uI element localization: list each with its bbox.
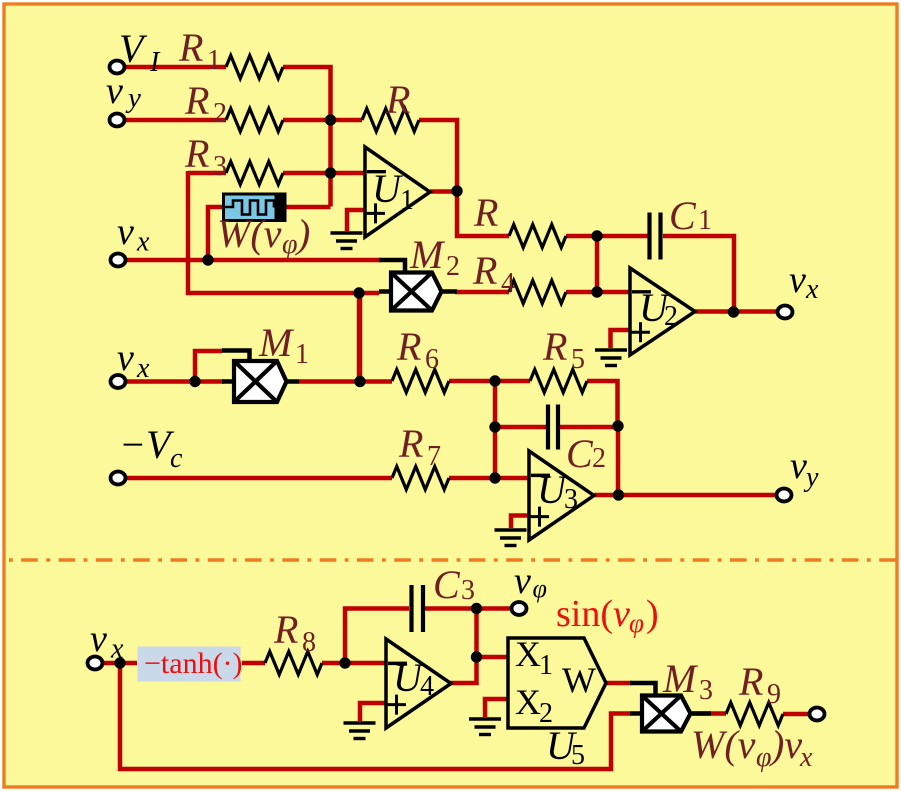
svg-text:M: M	[662, 656, 699, 701]
svg-text:4: 4	[420, 671, 434, 702]
resistor R1	[226, 56, 283, 79]
junction U4 output to X1	[471, 651, 482, 662]
wire integrator input bus	[493, 381, 498, 478]
op-amp U1	[365, 147, 430, 237]
resistor R7	[392, 467, 449, 490]
svg-text:R: R	[184, 78, 209, 123]
wire R8 right lead	[322, 661, 345, 666]
svg-text:3: 3	[699, 675, 713, 706]
lead M3 lower input	[630, 711, 642, 716]
wire U1 output	[430, 189, 457, 194]
svg-text:R: R	[398, 421, 423, 466]
svg-text:3: 3	[564, 484, 578, 515]
wire R5 right lead down	[587, 381, 618, 426]
svg-text:C: C	[566, 431, 594, 476]
label U3	[537, 467, 578, 515]
multiplier M3	[642, 696, 691, 732]
op-amp U4	[386, 639, 451, 728]
wire feedback R to U1 output	[419, 120, 457, 191]
svg-text:x: x	[136, 227, 150, 258]
wire v_x to M1	[125, 379, 224, 384]
svg-text:7: 7	[427, 441, 441, 472]
wire M2 lower node down to M1 output node	[357, 293, 362, 381]
label -Vc	[119, 422, 183, 474]
svg-text:M: M	[409, 232, 446, 277]
svg-text:v: v	[514, 560, 531, 602]
terminal v_y output	[777, 489, 792, 502]
svg-text:1: 1	[295, 339, 309, 370]
wire U4 noninverting to ground	[360, 703, 386, 721]
svg-text:R: R	[184, 131, 209, 176]
ground of U5 X2 input	[469, 719, 501, 735]
terminal v_phi	[512, 602, 527, 615]
svg-text:v: v	[789, 259, 806, 301]
memristor W(v_phi)	[224, 193, 286, 223]
svg-text:1: 1	[207, 45, 221, 76]
svg-text:R: R	[472, 248, 497, 293]
wire M1 second input loop	[195, 351, 222, 382]
label R feedback	[385, 77, 410, 122]
label v_phi	[514, 560, 547, 603]
label U5	[546, 723, 585, 771]
label R8	[273, 607, 316, 658]
lead M1 input	[222, 379, 234, 384]
svg-text:φ: φ	[756, 742, 772, 773]
wire U1 output down to R input of U2	[457, 191, 509, 236]
wire U1 noninverting to ground	[347, 210, 365, 231]
wire to M2 lower input	[359, 291, 379, 296]
junction R8 C3	[339, 657, 350, 668]
ground of U4	[344, 723, 376, 739]
svg-text:1: 1	[400, 185, 414, 216]
capacitor C3	[412, 585, 424, 632]
terminal v_x bottom	[88, 657, 103, 670]
wire v_x to tanh block	[103, 661, 137, 666]
ground of U2	[595, 350, 627, 366]
junction R7 U3 input	[489, 472, 500, 483]
wire to C2 left plate	[495, 425, 548, 430]
svg-text:v: v	[117, 211, 134, 253]
svg-text:3: 3	[213, 151, 227, 182]
svg-text:): )	[646, 593, 659, 635]
wire up to C3 left plate	[345, 609, 409, 664]
wire tanh block to R8	[242, 661, 265, 666]
wire to X1 input of U5	[477, 655, 509, 660]
svg-text:2: 2	[446, 251, 460, 282]
label V_I	[119, 26, 161, 78]
junction C2 left	[489, 421, 500, 432]
label M1	[258, 320, 309, 370]
svg-text:R: R	[396, 324, 421, 369]
svg-text:C: C	[433, 562, 461, 607]
wire C3 right to v_phi node	[425, 606, 511, 611]
wire R6 to R5 node	[449, 379, 530, 384]
terminal -Vc	[111, 472, 126, 485]
terminal v_x output	[778, 306, 793, 319]
wire U2 noninverting to ground	[611, 330, 631, 348]
wire node A to feedback R	[331, 118, 363, 123]
ground of U1	[331, 233, 363, 249]
node A junction R2	[325, 114, 336, 125]
svg-text:φ: φ	[629, 608, 644, 638]
label U4	[393, 655, 434, 702]
svg-text:C: C	[669, 193, 697, 238]
terminal v_x input 2	[111, 375, 126, 388]
wire v_y to R2	[125, 118, 226, 123]
svg-text:W(v: W(v	[217, 211, 282, 256]
svg-text:x: x	[110, 634, 124, 665]
wire R1 right lead and summing bus to node A	[283, 67, 331, 207]
wire R3 to node A	[283, 171, 331, 176]
wire node A to U1 inverting input	[331, 171, 366, 176]
wire V_I to R1	[125, 65, 226, 70]
label R1	[178, 25, 221, 76]
wire memristor left plate down to v_x line	[208, 207, 223, 260]
svg-text:sin(v: sin(v	[556, 593, 630, 635]
wire R4 to U2 inverting input	[566, 290, 630, 295]
label C2	[566, 431, 606, 476]
resistor R input of U2	[509, 225, 566, 248]
lead M1 output	[287, 379, 300, 384]
multiplier M2	[391, 273, 442, 311]
label M2	[409, 232, 460, 282]
terminal v_x input 1	[111, 254, 126, 267]
wire M1 output to R6	[299, 379, 392, 384]
svg-text:c: c	[170, 443, 183, 474]
wire R9 to output terminal	[783, 712, 809, 717]
junction M1 output	[354, 376, 365, 387]
wire M2 output to R4	[455, 290, 509, 295]
label U1	[372, 166, 414, 216]
label v_x 1	[117, 211, 150, 258]
ground of U3	[495, 530, 527, 546]
op-amp U3	[529, 451, 594, 540]
svg-text:R: R	[178, 25, 203, 70]
lead M3 upper input	[630, 683, 656, 694]
svg-text:)v: )v	[769, 722, 802, 767]
wire R3 node down to M2 lower input	[188, 171, 359, 293]
junction memristor on v_x line	[202, 254, 213, 265]
svg-text:9: 9	[767, 679, 781, 710]
svg-text:1: 1	[539, 650, 553, 681]
junction M2 lower input	[353, 287, 364, 298]
op-amp U2	[630, 268, 695, 355]
resistor R2	[226, 109, 283, 132]
wire down to U3 output node	[616, 426, 621, 495]
label R3	[184, 131, 227, 182]
svg-text:v: v	[117, 337, 134, 379]
resistor R8	[265, 652, 322, 675]
label v_y	[106, 70, 141, 114]
wire X2 input to ground	[485, 699, 508, 717]
label X1 pin	[515, 634, 553, 681]
svg-text:−V: −V	[119, 422, 175, 467]
label X2 pin	[515, 682, 553, 729]
terminal output W(v_phi)v_x	[810, 708, 825, 721]
junction U3 output	[613, 489, 624, 500]
wire R3 left lead	[188, 171, 226, 176]
tanh block	[138, 647, 241, 682]
svg-text:φ: φ	[533, 574, 547, 603]
wire v_x to M2 upper input	[125, 258, 381, 263]
junction R and C1	[591, 230, 602, 241]
wire U3 output to v_y terminal	[594, 493, 776, 498]
junction v_x at M1	[189, 376, 200, 387]
svg-text:W: W	[562, 660, 596, 700]
svg-text:2: 2	[664, 301, 678, 332]
node junction R3	[325, 167, 336, 178]
terminal v_y input	[110, 114, 125, 127]
svg-text:x: x	[799, 742, 813, 773]
label R9	[738, 659, 781, 710]
wire U3 noninverting to ground	[511, 516, 529, 529]
svg-text:3: 3	[461, 575, 475, 606]
svg-text:φ: φ	[282, 229, 298, 260]
resistor R6	[392, 370, 449, 393]
label U2	[639, 285, 678, 332]
label v_x output	[789, 259, 819, 305]
wire U2 output to v_x terminal	[694, 309, 777, 314]
wire v_x feedback to M3 lower input	[120, 663, 630, 769]
wire R to C1 node	[566, 234, 649, 239]
svg-text:R: R	[385, 77, 410, 122]
label R4	[472, 248, 515, 299]
junction v_x tanh feedback	[114, 657, 125, 668]
svg-text:R: R	[542, 324, 567, 369]
svg-text:X: X	[515, 634, 541, 674]
svg-text:M: M	[258, 320, 295, 365]
resistor R5	[530, 370, 587, 393]
label v_y output	[790, 445, 819, 493]
svg-text:2: 2	[213, 98, 227, 129]
lead M1 upper input	[222, 351, 250, 362]
wire W output	[606, 681, 632, 686]
wire -Vc to R7	[125, 476, 392, 481]
resistor R4	[509, 281, 566, 304]
svg-text:x: x	[805, 274, 819, 305]
resistor R feedback of U1	[362, 109, 419, 132]
wire U4 output up to C3 node	[449, 608, 477, 683]
junction R5 C2 right	[612, 420, 623, 431]
multiplier M1	[234, 361, 287, 402]
svg-text:R: R	[738, 659, 763, 704]
svg-text:X: X	[515, 682, 541, 722]
svg-text:v: v	[106, 70, 123, 112]
svg-text:1: 1	[698, 205, 712, 236]
wire C2 right plate to node	[558, 425, 618, 430]
label R7	[398, 421, 441, 472]
wire R7 to U3 inverting input	[449, 476, 529, 481]
label R2	[184, 78, 227, 129]
lead M3 output	[692, 711, 711, 716]
label R5	[542, 324, 585, 375]
svg-text:6: 6	[425, 344, 439, 375]
wire C1 right plate down to U2 output	[663, 236, 734, 312]
label C1	[669, 193, 712, 238]
junction C3 v_phi	[471, 603, 482, 614]
svg-text:v: v	[790, 445, 807, 487]
terminal V_I	[110, 61, 125, 74]
label v_x 2	[117, 337, 150, 384]
svg-text:−tanh(·): −tanh(·)	[144, 647, 243, 680]
svg-text:8: 8	[302, 627, 316, 658]
resistor R9	[726, 703, 783, 726]
svg-text:y: y	[125, 82, 141, 114]
label W(v_phi)	[217, 211, 282, 256]
resistor R3	[226, 162, 283, 185]
multiplier U5 sine block	[508, 638, 606, 728]
label C3	[433, 562, 475, 607]
label R6	[396, 324, 439, 375]
svg-text:R: R	[473, 190, 498, 235]
junction U1 output	[451, 185, 462, 196]
wire M1 output node up to M2	[358, 293, 363, 382]
svg-text:y: y	[803, 462, 819, 493]
wire memristor right plate to bus	[285, 205, 331, 210]
svg-text:W(v: W(v	[691, 722, 756, 767]
wire R2 to node A bus	[283, 118, 331, 123]
svg-text:2: 2	[592, 443, 606, 474]
svg-text:I: I	[149, 47, 161, 78]
svg-text:5: 5	[571, 344, 585, 375]
label W pin	[562, 660, 596, 700]
wire C1 left to R4 node	[595, 236, 600, 292]
junction R6 R5	[489, 375, 500, 386]
wire M3 output to R9	[692, 711, 726, 716]
svg-text:R: R	[273, 607, 298, 652]
lead M2 output	[442, 289, 458, 294]
section divider dash-dot line	[4, 558, 897, 561]
junction U2 output	[728, 306, 739, 317]
svg-text:x: x	[136, 353, 150, 384]
svg-text:4: 4	[501, 268, 515, 299]
lead M2 upper input	[379, 260, 405, 272]
lead M2 lower input	[379, 289, 391, 294]
capacitor C2	[548, 405, 558, 450]
label R input U2	[473, 190, 498, 235]
svg-text:5: 5	[571, 740, 585, 771]
svg-text:): )	[295, 211, 310, 256]
label M3	[662, 656, 713, 706]
svg-text:v: v	[90, 618, 107, 660]
wire to U4 inverting input	[345, 661, 386, 666]
label v_x bottom	[90, 618, 124, 665]
junction R4 and C1 branch	[591, 286, 602, 297]
capacitor C1	[650, 213, 661, 260]
